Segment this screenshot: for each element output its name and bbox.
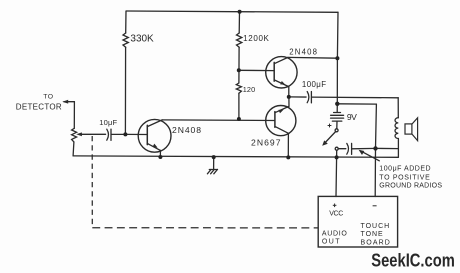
svg-text:SeekIC.com: SeekIC.com [371, 250, 455, 271]
svg-text:10μF: 10μF [99, 118, 117, 127]
svg-text:TOUCH: TOUCH [361, 223, 390, 230]
svg-text:BOARD: BOARD [361, 239, 390, 246]
svg-text:GROUND RADIOS: GROUND RADIOS [379, 183, 442, 190]
svg-text:2N408: 2N408 [289, 48, 317, 57]
svg-text:330K: 330K [130, 34, 154, 45]
svg-text:2N697: 2N697 [251, 138, 281, 148]
svg-text:AUDIO: AUDIO [322, 231, 347, 238]
svg-text:9V: 9V [347, 112, 357, 122]
svg-text:100μF: 100μF [302, 80, 326, 89]
svg-text:TONE: TONE [361, 231, 384, 238]
svg-text:1200K: 1200K [243, 34, 269, 43]
svg-text:TO POSITIVE: TO POSITIVE [379, 174, 430, 181]
svg-text:120: 120 [243, 85, 256, 94]
svg-text:100μF ADDED: 100μF ADDED [379, 165, 430, 172]
svg-text:DETECTOR: DETECTOR [16, 102, 62, 111]
svg-text:TO: TO [43, 94, 53, 101]
svg-text:VCC: VCC [329, 211, 343, 218]
svg-text:2N408: 2N408 [172, 125, 201, 135]
svg-text:OUT: OUT [322, 238, 340, 245]
